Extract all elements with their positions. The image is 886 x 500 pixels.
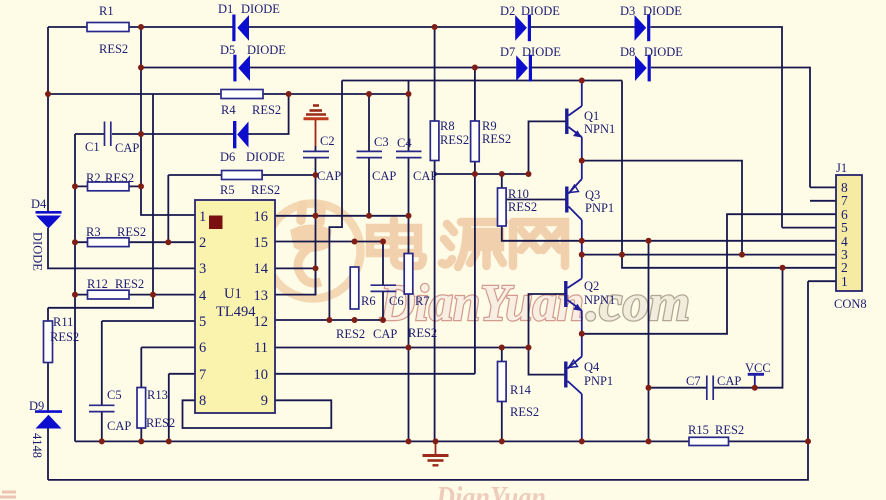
svg-text:1: 1 [199,209,206,225]
ground bottom red [423,441,449,465]
wire left vertical x48 upper [47,27,49,213]
svg-text:3: 3 [199,261,206,277]
svg-text:RES2: RES2 [115,277,144,291]
transistor Q1 [567,81,582,161]
svg-text:R14: R14 [510,383,532,397]
svg-text:R1: R1 [99,4,114,18]
svg-text:7: 7 [199,367,206,383]
wire U1 pin6 to R13 [141,347,195,441]
wire bottom rail B1 [75,440,808,442]
wire C2 column [315,146,317,295]
wire U1 pin5 to C5 [102,321,195,441]
resistor R7 [404,254,413,295]
svg-text:CAP: CAP [317,169,341,183]
capacitor C3 [357,151,383,157]
wire C7 row [649,268,783,388]
resistor R11 [44,321,53,363]
svg-text:R10: R10 [508,187,529,201]
wire R10 to Q3 base [506,199,566,201]
wire R10 column [502,174,582,241]
wire R8 column [434,27,436,441]
U1 pin numbers right [254,209,269,409]
svg-text:R15: R15 [688,423,709,437]
VCC symbol [748,373,764,376]
svg-text:RES2: RES2 [510,405,539,419]
node dots [45,24,811,444]
svg-text:R9: R9 [482,119,497,133]
svg-text:2: 2 [841,260,848,275]
svg-text:RES2: RES2 [50,330,79,344]
wire rail H2 D8 right [532,68,810,188]
wire R5 left vertical to pin1/pin2 [167,175,169,242]
wire V622 to J1 pin2 [622,81,836,268]
svg-text:NPN1: NPN1 [584,293,615,307]
connector J1 CON8 [836,175,862,291]
wire rail H2 D5-D7 [141,67,516,69]
svg-text:16: 16 [254,209,269,225]
svg-text:D1: D1 [218,2,233,16]
svg-text:11: 11 [254,340,268,356]
svg-text:J1: J1 [836,161,847,175]
resistor R3 [88,238,130,247]
wire J1 pin1 down column [807,281,809,441]
svg-text:DIODE: DIODE [521,4,560,18]
wire top rail H1 mid [249,26,515,28]
svg-text:R6: R6 [361,294,376,308]
wire Q2Q4 emitter to J1 pin6 [582,214,836,334]
wire R9-pin10 column [474,68,476,374]
watermark logo ring [266,200,361,299]
svg-text:NPN1: NPN1 [584,122,615,136]
resistor R12 [88,290,130,299]
resistor R6 [350,267,359,309]
diode D2 [515,15,529,42]
svg-text:9: 9 [261,393,268,409]
svg-text:13: 13 [254,288,269,304]
svg-text:CAP: CAP [107,419,131,433]
capacitor C7 [707,376,713,401]
resistor R14 [498,362,507,402]
svg-text:10: 10 [254,367,269,383]
resistor R2 [88,182,130,191]
svg-text:R2: R2 [86,171,101,185]
svg-text:6: 6 [199,340,206,356]
svg-text:D3: D3 [620,4,635,18]
wire U1 pin13 jog [275,268,316,294]
svg-text:RES2: RES2 [408,326,437,340]
transistor Q4 [566,334,582,442]
svg-text:5: 5 [841,220,848,235]
svg-text:Q1: Q1 [584,109,599,123]
watermark corner fragment [0,492,16,497]
svg-text:4148: 4148 [30,433,44,458]
svg-text:R13: R13 [147,388,168,402]
wire R2 row [75,185,141,187]
U1 pin numbers left [199,209,207,409]
svg-text:DIODE: DIODE [247,43,286,57]
svg-text:C5: C5 [107,388,122,402]
ground top red [304,106,329,147]
wire H3 rail [342,80,622,82]
diode D5 [235,55,250,82]
wire V141 column [141,27,195,215]
svg-text:CAP: CAP [413,169,437,183]
svg-text:Q4: Q4 [584,360,600,374]
svg-text:D5: D5 [220,43,235,57]
svg-text:Q3: Q3 [585,188,600,202]
wire pin3 feed row [582,254,836,256]
svg-text:DIODE: DIODE [241,2,280,16]
svg-text:RES2: RES2 [252,103,281,117]
svg-text:2: 2 [199,235,206,251]
watermark CJK text 电源网 [370,220,565,267]
svg-text:CAP: CAP [373,327,397,341]
svg-text:C6: C6 [389,294,404,308]
wire R14 column [501,348,503,442]
svg-text:RES2: RES2 [715,423,744,437]
svg-text:CAP: CAP [717,374,741,388]
svg-text:D4: D4 [31,197,47,211]
svg-text:7: 7 [841,193,848,208]
svg-text:C3: C3 [374,135,389,149]
diode D1 [234,15,249,42]
svg-text:DIODE: DIODE [643,4,682,18]
svg-text:DIODE: DIODE [644,45,683,59]
svg-text:12: 12 [254,314,269,330]
resistor R1 [87,23,129,32]
wire x48 lower column through R11 D9 [47,308,49,480]
svg-text:PNP1: PNP1 [585,201,614,215]
svg-text:PNP1: PNP1 [584,374,613,388]
svg-text:CON8: CON8 [834,297,867,311]
svg-text:VCC: VCC [745,361,771,375]
wire C1-D6 row [75,94,289,134]
wire J1 pin8 stub [810,186,836,188]
IC U1 TL494 [195,200,275,413]
wire V75 column [74,134,76,441]
wire V342 jog to pin12 [329,81,342,321]
wire C3 column [368,94,370,216]
svg-text:D2: D2 [500,4,515,18]
svg-text:5: 5 [199,314,206,330]
resistor R15 [689,437,729,445]
svg-text:R3: R3 [86,225,101,239]
diode D4 [36,212,62,228]
watermark DianYuan.com [379,275,690,332]
resistor R4 [221,90,263,99]
resistor R13 [137,388,146,429]
wire U1 pin16 row [275,215,408,217]
svg-text:U1: U1 [224,286,242,302]
wire C4-R7 column [408,81,410,442]
svg-text:DIODE: DIODE [31,232,45,271]
wire U1 pin7 down [169,374,195,442]
svg-text:14: 14 [254,261,269,277]
wire J1 pin5 stub [782,227,836,229]
wire U1 pin12 row [275,319,383,321]
wire U1 pin11 rail [275,347,529,349]
wire C6 column [382,242,384,321]
svg-text:C2: C2 [320,134,335,148]
diode D8 [635,55,649,82]
transistor Q2 [566,241,582,334]
svg-text:C4: C4 [397,136,412,150]
wire Q2 Q4 base feed [529,294,566,375]
svg-text:RES2: RES2 [482,132,511,146]
capacitor C4 [396,151,422,157]
transistor Q3 [567,161,582,241]
svg-text:RES2: RES2 [99,42,128,56]
svg-text:C1: C1 [85,140,100,154]
svg-text:C7: C7 [686,374,701,388]
svg-text:D7: D7 [500,45,515,59]
wire D4 to U1 pin3 [48,228,195,268]
svg-text:RES2: RES2 [117,225,146,239]
wire bottom outer rail B2 [48,441,808,480]
wire emitter node to x742 [582,161,742,255]
wire U1 pin10 to R9 column [275,373,475,375]
svg-text:D8: D8 [620,45,635,59]
svg-text:TL494: TL494 [216,304,256,320]
svg-text:RES2: RES2 [508,200,537,214]
J1 pin numbers [841,180,848,289]
svg-text:RES2: RES2 [251,183,280,197]
svg-text:CAP: CAP [372,169,396,183]
wire Q1 base feed [529,121,567,174]
diode D6 [235,121,249,148]
wire VCC stem [754,376,756,388]
resistor R9 [471,121,480,162]
svg-text:4: 4 [199,288,207,304]
svg-text:DIODE: DIODE [246,150,285,164]
svg-text:RES2: RES2 [105,171,134,185]
svg-text:CAP: CAP [115,141,139,155]
resistor R5 [222,171,263,180]
capacitor C6 [371,285,397,291]
svg-text:Q2: Q2 [584,279,599,293]
svg-text:15: 15 [254,235,269,251]
diode D9 [35,412,62,429]
svg-text:R12: R12 [87,277,108,291]
wire top rail H1 left [48,26,233,28]
wire J1 pin1 stub [808,280,836,282]
svg-text:RES2: RES2 [336,327,365,341]
wire J1 pin7 stub [810,200,836,202]
wire H4 R4 rail [48,93,409,95]
resistor R10 [498,188,507,226]
svg-text:R8: R8 [440,119,455,133]
wire rail174 [435,173,529,175]
svg-text:RES2: RES2 [146,416,175,430]
wire U1 pin15 row [275,241,383,243]
wire R5 row to C2 col [168,174,315,176]
wire top rail H1 right [531,27,782,228]
resistor R8 [430,121,439,161]
svg-text:R11: R11 [53,315,73,329]
svg-text:1: 1 [841,274,848,289]
wire R3 to pin2 [75,241,195,243]
U1 pin1 marker [209,216,223,230]
svg-text:D9: D9 [29,399,44,413]
capacitor C5 [89,405,115,411]
svg-text:DIODE: DIODE [522,45,561,59]
diode D3 [635,15,649,42]
wire U1 pin8-pin9 U-route [183,400,332,428]
diode D7 [516,55,530,82]
wire V153 column [48,94,153,308]
wire Q-midpoint to J1 pin4 [582,240,836,242]
svg-text:R5: R5 [220,183,235,197]
svg-text:D6: D6 [220,150,235,164]
svg-text:8: 8 [199,393,206,409]
wire R12 to pin4 [75,294,195,296]
svg-text:R4: R4 [221,103,236,117]
wire V649 column [648,241,650,442]
wire U1 pin14 row [275,267,316,269]
svg-text:R7: R7 [415,294,430,308]
svg-text:RES2: RES2 [440,133,469,147]
capacitor C2 [303,151,329,157]
svg-text:DianYuan: DianYuan [435,479,546,500]
capacitor C1 [105,122,111,147]
